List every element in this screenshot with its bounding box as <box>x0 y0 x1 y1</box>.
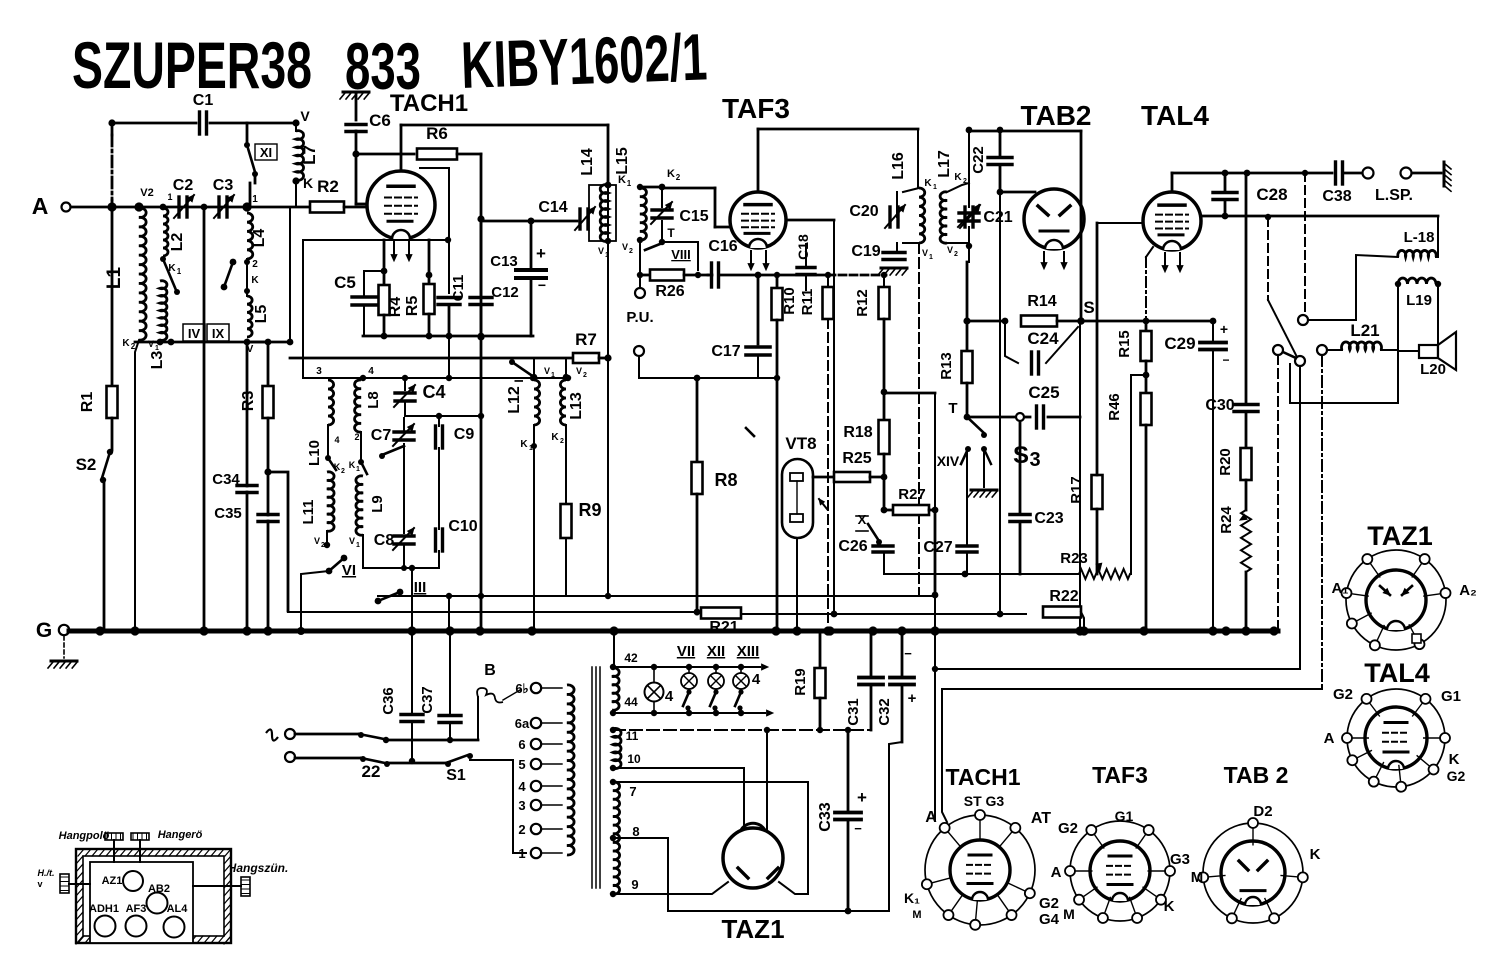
svg-text:2: 2 <box>676 173 681 182</box>
svg-text:C6: C6 <box>369 111 391 130</box>
svg-text:R9: R9 <box>578 500 601 520</box>
svg-text:22: 22 <box>362 762 381 781</box>
svg-text:K: K <box>251 275 259 286</box>
svg-text:C19: C19 <box>851 243 880 260</box>
svg-text:C16: C16 <box>708 238 737 255</box>
svg-text:C2: C2 <box>173 177 194 194</box>
svg-text:A₂: A₂ <box>1459 582 1477 599</box>
svg-text:V: V <box>314 536 320 546</box>
svg-text:L13: L13 <box>568 392 585 420</box>
svg-text:1: 1 <box>627 179 632 188</box>
svg-text:2: 2 <box>560 438 564 445</box>
svg-text:A: A <box>32 193 49 219</box>
svg-text:L14: L14 <box>579 148 596 176</box>
svg-text:1: 1 <box>167 192 172 202</box>
svg-text:C3: C3 <box>213 177 234 194</box>
svg-text:G2: G2 <box>1447 768 1466 784</box>
svg-text:V: V <box>598 246 604 256</box>
svg-text:SZUPER38: SZUPER38 <box>72 28 312 102</box>
svg-text:R2: R2 <box>317 177 339 196</box>
svg-text:4: 4 <box>752 671 761 688</box>
svg-text:1: 1 <box>252 194 258 205</box>
svg-text:C8: C8 <box>374 532 395 549</box>
svg-text:42: 42 <box>624 651 638 665</box>
svg-text:R21: R21 <box>709 619 738 636</box>
svg-text:R11: R11 <box>799 289 816 316</box>
svg-text:R13: R13 <box>938 352 955 380</box>
svg-text:3: 3 <box>316 366 322 377</box>
svg-text:C12: C12 <box>491 284 519 301</box>
svg-text:Hangszün.: Hangszün. <box>228 861 289 875</box>
svg-text:−: − <box>538 277 546 293</box>
svg-text:ADH1: ADH1 <box>89 903 119 915</box>
svg-text:1: 1 <box>933 184 937 191</box>
svg-text:R18: R18 <box>843 424 872 441</box>
svg-text:VIII: VIII <box>671 247 691 262</box>
svg-text:V: V <box>947 245 953 255</box>
svg-text:Hangpolö: Hangpolö <box>59 830 110 842</box>
svg-text:AF3: AF3 <box>126 903 147 915</box>
svg-text:TAZ1: TAZ1 <box>1367 521 1433 551</box>
svg-text:9: 9 <box>631 877 638 892</box>
svg-text:K: K <box>1310 846 1321 863</box>
svg-text:1: 1 <box>356 466 360 473</box>
svg-text:R24: R24 <box>1218 506 1235 534</box>
svg-text:XII: XII <box>707 643 725 660</box>
svg-text:C11: C11 <box>450 275 467 302</box>
svg-text:C28: C28 <box>1256 185 1287 204</box>
svg-text:R17: R17 <box>1068 476 1085 504</box>
svg-text:P.U.: P.U. <box>626 309 653 326</box>
svg-text:A: A <box>1051 864 1062 881</box>
svg-text:2: 2 <box>252 259 258 270</box>
svg-text:L20: L20 <box>1420 361 1446 378</box>
svg-text:C10: C10 <box>448 518 477 535</box>
svg-text:AB2: AB2 <box>148 883 170 895</box>
svg-text:K: K <box>349 460 356 470</box>
svg-text:C9: C9 <box>454 426 475 443</box>
svg-text:I: I <box>512 379 526 382</box>
svg-text:+: + <box>908 690 917 707</box>
svg-text:1: 1 <box>605 252 609 259</box>
svg-text:G4: G4 <box>1039 911 1060 928</box>
svg-text:K: K <box>924 178 932 189</box>
svg-text:R6: R6 <box>426 124 448 143</box>
svg-text:L17: L17 <box>936 150 953 178</box>
svg-text:−: − <box>854 821 862 836</box>
svg-text:K: K <box>122 338 130 349</box>
svg-text:2: 2 <box>354 432 359 442</box>
svg-text:C30: C30 <box>1205 397 1234 414</box>
svg-text:6a: 6a <box>515 716 530 731</box>
svg-text:7: 7 <box>629 784 636 799</box>
svg-text:3: 3 <box>518 798 525 813</box>
svg-text:TACH1: TACH1 <box>390 90 468 117</box>
svg-text:R20: R20 <box>1217 448 1234 476</box>
svg-text:V2: V2 <box>140 187 153 199</box>
svg-text:1: 1 <box>177 267 182 276</box>
svg-text:C29: C29 <box>1164 334 1195 353</box>
svg-text:4: 4 <box>334 435 339 445</box>
svg-text:C5: C5 <box>334 273 356 292</box>
svg-text:C20: C20 <box>849 203 878 220</box>
svg-text:R10: R10 <box>781 287 798 315</box>
svg-text:R4: R4 <box>387 297 404 318</box>
svg-text:IX: IX <box>212 326 225 341</box>
svg-text:L4: L4 <box>251 229 268 248</box>
svg-text:ST G3: ST G3 <box>964 793 1005 809</box>
svg-text:5: 5 <box>518 757 525 772</box>
svg-text:L21: L21 <box>1350 321 1379 340</box>
svg-text:11: 11 <box>626 729 639 743</box>
svg-text:C17: C17 <box>711 343 740 360</box>
svg-text:R14: R14 <box>1027 293 1056 310</box>
svg-text:+: + <box>857 788 867 807</box>
svg-text:III: III <box>414 579 427 596</box>
svg-text:K: K <box>520 439 528 450</box>
svg-text:K: K <box>667 168 675 180</box>
svg-text:v: v <box>37 879 42 889</box>
svg-text:V: V <box>576 366 582 376</box>
svg-text:AZ1: AZ1 <box>102 875 123 887</box>
svg-text:VII: VII <box>677 643 695 660</box>
svg-text:C34: C34 <box>212 471 240 488</box>
svg-text:L9: L9 <box>369 495 386 513</box>
svg-text:R8: R8 <box>714 470 737 490</box>
svg-text:C22: C22 <box>970 146 987 174</box>
svg-text:C18: C18 <box>795 234 811 260</box>
svg-text:VT8: VT8 <box>785 434 816 453</box>
svg-text:C33: C33 <box>817 802 834 831</box>
svg-text:L1: L1 <box>104 266 125 289</box>
svg-text:1: 1 <box>518 846 525 861</box>
svg-text:44: 44 <box>624 695 638 709</box>
svg-text:G: G <box>36 619 52 642</box>
svg-text:IV: IV <box>188 326 201 341</box>
svg-text:C25: C25 <box>1028 383 1059 402</box>
svg-text:XIII: XIII <box>737 643 760 660</box>
svg-text:TAB2: TAB2 <box>1020 100 1091 131</box>
svg-text:C4: C4 <box>422 382 445 402</box>
svg-text:6♭: 6♭ <box>515 681 528 696</box>
svg-text:AT: AT <box>1031 810 1051 827</box>
svg-text:Hangerö: Hangerö <box>158 829 203 841</box>
svg-text:−: − <box>904 646 912 661</box>
svg-text:C36: C36 <box>380 687 397 715</box>
svg-text:L15: L15 <box>614 147 631 175</box>
svg-text:A₁: A₁ <box>1331 580 1348 597</box>
svg-text:R3: R3 <box>240 391 257 412</box>
svg-text:C26: C26 <box>838 538 867 555</box>
svg-text:L16: L16 <box>890 152 907 180</box>
svg-text:V: V <box>148 339 154 349</box>
svg-text:−: − <box>1222 353 1229 367</box>
svg-text:T: T <box>667 226 675 240</box>
svg-text:R26: R26 <box>655 283 684 300</box>
svg-text:TAF3: TAF3 <box>1092 762 1148 788</box>
svg-text:C7: C7 <box>371 427 392 444</box>
svg-text:8: 8 <box>632 824 639 839</box>
svg-text:4: 4 <box>665 688 674 705</box>
svg-text:L11: L11 <box>300 499 317 524</box>
svg-text:2: 2 <box>629 248 633 255</box>
svg-text:TAF3: TAF3 <box>722 93 790 124</box>
svg-text:G2: G2 <box>1333 686 1353 703</box>
svg-text:S2: S2 <box>76 455 97 474</box>
svg-text:XIV: XIV <box>937 453 960 469</box>
svg-text:1: 1 <box>356 542 360 549</box>
svg-text:R22: R22 <box>1049 588 1078 605</box>
svg-text:AL4: AL4 <box>167 903 189 915</box>
svg-text:L2: L2 <box>169 233 186 252</box>
svg-text:V: V <box>622 242 628 252</box>
svg-text:3: 3 <box>1029 449 1040 471</box>
svg-text:V: V <box>922 248 928 258</box>
svg-text:TAZ1: TAZ1 <box>721 914 784 944</box>
svg-text:B: B <box>484 662 496 679</box>
svg-text:K: K <box>551 432 559 443</box>
svg-text:L19: L19 <box>1406 292 1432 309</box>
svg-text:X: X <box>858 512 867 527</box>
svg-text:A: A <box>1324 730 1335 747</box>
svg-text:R23: R23 <box>1060 550 1088 567</box>
svg-text:C24: C24 <box>1027 329 1059 348</box>
svg-text:S1: S1 <box>446 767 466 784</box>
svg-text:K: K <box>618 174 626 186</box>
svg-text:A: A <box>925 809 937 826</box>
svg-text:R5: R5 <box>404 296 421 317</box>
svg-text:G1: G1 <box>1441 688 1461 705</box>
svg-text:V: V <box>544 366 550 376</box>
svg-text:+: + <box>536 244 546 263</box>
svg-text:R19: R19 <box>792 668 809 696</box>
svg-text:C35: C35 <box>214 505 242 522</box>
svg-text:C38: C38 <box>1322 188 1351 205</box>
svg-text:L5: L5 <box>253 305 270 324</box>
svg-text:G1: G1 <box>1115 808 1134 824</box>
svg-text:C37: C37 <box>419 686 436 714</box>
svg-text:KIBY1602/1: KIBY1602/1 <box>460 19 708 102</box>
svg-text:2: 2 <box>341 468 345 475</box>
svg-text:K: K <box>954 172 962 183</box>
svg-text:L10: L10 <box>306 440 323 466</box>
svg-text:C31: C31 <box>845 698 862 726</box>
svg-text:M: M <box>1063 906 1075 922</box>
svg-text:C13: C13 <box>490 253 518 270</box>
svg-text:VI: VI <box>342 562 356 579</box>
svg-text:2: 2 <box>954 251 958 258</box>
svg-text:R1: R1 <box>79 392 96 413</box>
svg-text:L12: L12 <box>506 386 523 414</box>
svg-text:M: M <box>1191 869 1204 886</box>
svg-text:C1: C1 <box>193 92 214 109</box>
svg-text:K₁: K₁ <box>904 890 920 906</box>
svg-text:1: 1 <box>155 345 159 352</box>
svg-text:L.SP.: L.SP. <box>1375 187 1413 204</box>
svg-text:H./t.: H./t. <box>38 868 55 878</box>
svg-text:C14: C14 <box>538 199 567 216</box>
svg-text:L-18: L-18 <box>1404 229 1435 246</box>
svg-text:S: S <box>1083 298 1094 317</box>
svg-text:V: V <box>349 536 355 546</box>
svg-text:L8: L8 <box>365 391 382 409</box>
svg-text:4: 4 <box>368 366 374 377</box>
svg-text:M: M <box>912 909 921 921</box>
svg-text:4: 4 <box>518 779 526 794</box>
svg-text:10: 10 <box>627 752 641 766</box>
svg-text:R12: R12 <box>854 289 871 317</box>
svg-text:XI: XI <box>260 145 272 160</box>
svg-text:G2: G2 <box>1058 820 1078 837</box>
svg-text:L3: L3 <box>149 351 166 370</box>
svg-text:R7: R7 <box>575 330 597 349</box>
svg-text:TACH1: TACH1 <box>946 764 1021 790</box>
svg-text:V: V <box>300 108 310 124</box>
svg-text:2: 2 <box>583 372 587 379</box>
svg-text:C15: C15 <box>679 208 708 225</box>
svg-text:1: 1 <box>929 254 933 261</box>
svg-text:C32: C32 <box>876 698 893 726</box>
svg-text:C27: C27 <box>923 539 952 556</box>
svg-text:TAB 2: TAB 2 <box>1224 762 1289 788</box>
svg-text:C23: C23 <box>1034 510 1063 527</box>
svg-text:K: K <box>1449 751 1460 768</box>
svg-text:2: 2 <box>518 822 525 837</box>
svg-text:D2: D2 <box>1253 803 1272 820</box>
svg-text:6: 6 <box>518 737 525 752</box>
svg-text:R25: R25 <box>842 450 871 467</box>
svg-text:TAL4: TAL4 <box>1364 658 1430 688</box>
svg-text:L7: L7 <box>300 145 319 165</box>
svg-text:R27: R27 <box>898 486 926 503</box>
svg-text:R46: R46 <box>1106 393 1123 421</box>
svg-text:K: K <box>303 175 313 191</box>
svg-text:G3: G3 <box>1170 851 1190 868</box>
svg-text:K: K <box>1164 898 1175 915</box>
svg-text:TAL4: TAL4 <box>1141 100 1209 131</box>
svg-text:+: + <box>1220 321 1228 337</box>
svg-text:C21: C21 <box>983 209 1012 226</box>
svg-text:T: T <box>948 400 957 417</box>
svg-text:G2: G2 <box>1039 895 1059 912</box>
svg-text:R15: R15 <box>1116 330 1133 358</box>
